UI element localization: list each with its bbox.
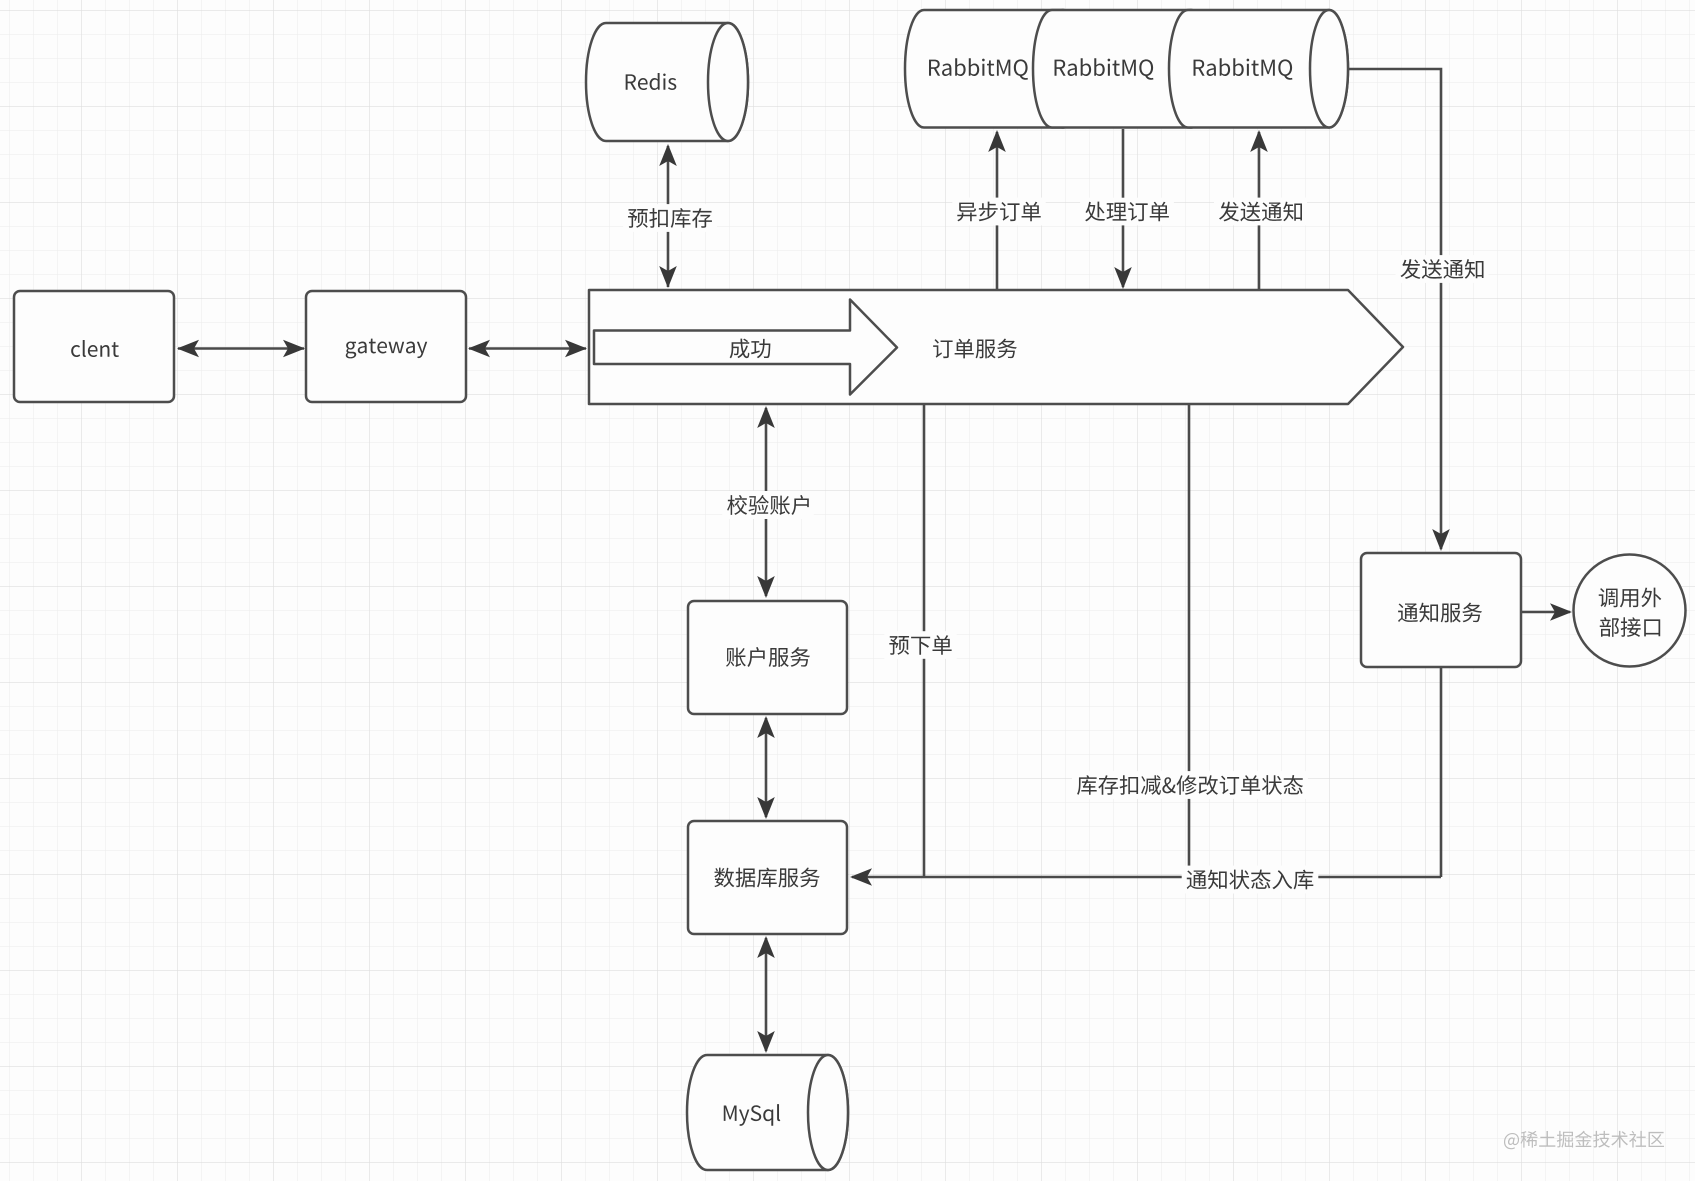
label 校验账户: [722, 491, 814, 519]
wire clent-gateway: [177, 340, 305, 358]
text 处理订单: [1085, 202, 1169, 222]
label clent: [71, 340, 119, 357]
label 发送通知 top: [1214, 198, 1307, 226]
label 异步订单: [952, 198, 1045, 226]
wire gateway-order-service: [468, 340, 587, 358]
label Redis: [626, 73, 677, 90]
label RabbitMQ 3: [1194, 58, 1293, 80]
text 发送通知 right: [1401, 259, 1484, 279]
label 账户服务: [726, 647, 810, 667]
label 数据库服务: [714, 868, 819, 888]
label MySql: [724, 1104, 780, 1126]
cylinder Redis: [586, 23, 748, 141]
circle 调用外部接口 external-api: [1574, 555, 1686, 667]
label gateway: [346, 339, 427, 359]
text 异步订单: [957, 202, 1040, 222]
wire notify-service - external circle: [1521, 603, 1572, 621]
wire order-service - Redis (预扣库存): [659, 144, 677, 288]
box 数据库服务 db-service: [688, 821, 847, 934]
text 库存扣减&修改订单状态: [1077, 775, 1303, 795]
cylinder RabbitMQ 1: [905, 10, 1082, 128]
text 发送通知 top: [1219, 202, 1302, 222]
text 通知状态入库: [1187, 870, 1314, 890]
wire account-service - db-service double: [757, 716, 775, 819]
label 库存扣减&修改订单状态: [1072, 771, 1308, 799]
wire order-service - db-service (库存扣减): [1188, 405, 1191, 877]
label 部接口: [1600, 617, 1660, 637]
wire order-service - RabbitMQ1 (异步订单) up arrow: [988, 130, 1006, 289]
label 调用外: [1599, 588, 1662, 608]
box clent: [14, 291, 174, 402]
label 发送通知 right: [1396, 255, 1489, 283]
watermark @稀土掘金技术社区: [1504, 1131, 1664, 1149]
cylinder RabbitMQ 3: [1169, 10, 1348, 128]
inner arrow 成功: [594, 300, 897, 395]
box 账户服务 account-service: [688, 601, 847, 714]
text 预扣库存: [628, 208, 712, 228]
wire RabbitMQ2 - order-service (处理订单) down arrow: [1114, 129, 1132, 289]
text 预下单: [889, 635, 951, 655]
label 成功: [730, 339, 771, 359]
cylinder RabbitMQ 2: [1033, 10, 1210, 128]
box gateway: [306, 291, 466, 402]
label 订单服务: [933, 339, 1017, 359]
wire RabbitMQ3 - notify-service (发送通知 right): [1348, 69, 1450, 551]
label RabbitMQ 2: [1055, 58, 1154, 80]
label 通知状态入库: [1182, 866, 1319, 894]
wire notify-service - db-service (通知状态入库): [850, 668, 1441, 886]
label 处理订单: [1080, 198, 1174, 226]
label RabbitMQ 1: [929, 58, 1028, 80]
wire order-service - account-service (校验账户) double: [757, 406, 775, 598]
wire db-service - MySql double: [757, 936, 775, 1053]
label 预下单: [884, 631, 956, 659]
box 通知服务 notify-service: [1361, 553, 1521, 667]
wire order-service - db-service (预下单): [923, 405, 926, 877]
text 校验账户: [727, 495, 809, 515]
label 预扣库存: [623, 204, 717, 232]
cylinder MySql: [687, 1055, 848, 1170]
wire order-service - RabbitMQ3 (发送通知) up arrow: [1250, 130, 1268, 289]
pentagon 订单服务 order-service: [589, 290, 1403, 404]
label 通知服务: [1398, 603, 1482, 623]
